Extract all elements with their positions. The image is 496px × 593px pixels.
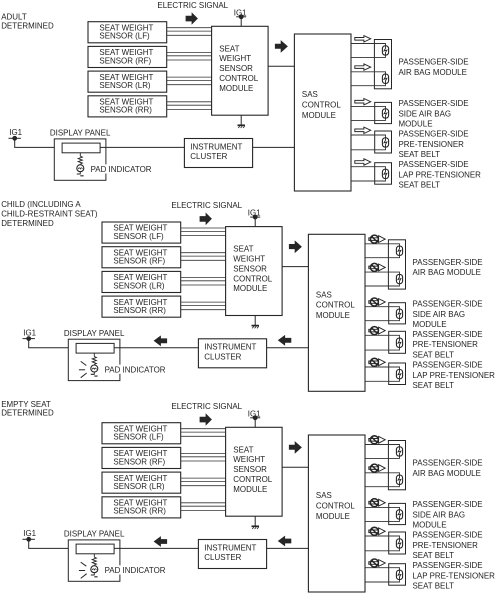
svg-text:CONTROL: CONTROL: [316, 300, 355, 310]
svg-text:PASSENGER-SIDE: PASSENGER-SIDE: [413, 299, 483, 309]
wire: SAS to lap pre-tensioner squib loop (section 2): [365, 367, 400, 381]
box: seat weight sensor (LF) (section 2): [102, 222, 181, 243]
svg-text:PASSENGER-SIDE: PASSENGER-SIDE: [399, 98, 469, 108]
svg-text:CONTROL: CONTROL: [233, 273, 272, 283]
box: seat weight sensor (RF) (section 1): [88, 46, 167, 67]
wire: SAS to pre-tensioner squib loop (section 3): [365, 536, 400, 551]
power IG1 terminal + wire to display panel (section 2): [23, 337, 77, 348]
box: instrument cluster (section 2): [198, 339, 266, 368]
box: SAS control module (section 1): [294, 34, 351, 191]
wires: sensor (LF) to control module, 3 lines (section 1): [167, 28, 212, 36]
svg-text:DISPLAY PANEL: DISPLAY PANEL: [64, 529, 125, 539]
svg-text:AIR BAG MODULE: AIR BAG MODULE: [413, 468, 482, 478]
wire: instrument cluster to SAS control module (section 3): [267, 547, 309, 549]
box: seat weight sensor (LR) (section 1): [88, 71, 167, 92]
svg-text:SIDE AIR BAG: SIDE AIR BAG: [413, 510, 466, 520]
arrow: deployment signal to air bag squib 1 (section 1): [355, 36, 371, 42]
box: seat weight sensor (LR) (section 3): [102, 472, 181, 493]
svg-text:PASSENGER-SIDE: PASSENGER-SIDE: [413, 530, 483, 540]
box: seat weight sensor (RF) (section 2): [102, 247, 181, 268]
svg-text:SEAT BELT: SEAT BELT: [413, 550, 455, 560]
squib: side air bag squib (section 3): [396, 510, 402, 519]
box: passenger-side air bag module, dual squib (section 1): [374, 40, 391, 89]
power IG1 terminal + wire to display panel (section 1): [9, 136, 63, 147]
box: lap pre-tensioner squib module (section 3): [389, 564, 406, 586]
label: passenger-side air bag module (section 3): [413, 458, 483, 478]
label: passenger-side pre-tensioner seat belt (section 2): [413, 329, 483, 360]
svg-text:SIDE AIR BAG: SIDE AIR BAG: [413, 309, 466, 319]
arrow: signal from SAS control module to instrument cluster (section 2): [278, 335, 292, 346]
wire: SAS to air bag squib 2 loop (section 2): [365, 272, 400, 286]
svg-text:WEIGHT: WEIGHT: [233, 454, 265, 464]
svg-text:ELECTRIC SIGNAL: ELECTRIC SIGNAL: [171, 401, 242, 411]
svg-text:MODULE: MODULE: [219, 83, 253, 93]
wires: sensor (RF) to control module, 3 lines (section 2): [181, 253, 226, 261]
label: PAD INDICATOR (section 2): [103, 365, 170, 375]
box: seat weight sensor control module (section 2): [226, 227, 283, 316]
svg-text:SENSOR (LR): SENSOR (LR): [113, 481, 164, 491]
wires: sensor (LR) to control module, 3 lines (section 1): [167, 77, 212, 85]
squib: pre-tensioner squib (section 1): [382, 138, 388, 147]
box: seat weight sensor (LR) (section 2): [102, 271, 181, 292]
svg-text:CONTROL: CONTROL: [316, 500, 355, 510]
svg-text:INSTRUMENT: INSTRUMENT: [204, 342, 256, 352]
svg-text:PRE-TENSIONER: PRE-TENSIONER: [399, 139, 464, 149]
svg-text:PASSENGER-SIDE: PASSENGER-SIDE: [413, 329, 483, 339]
box: seat weight sensor (LF) (section 1): [88, 22, 167, 43]
arrow: signal from control module to SAS control module (section 3): [289, 441, 302, 454]
box: display panel (section 2): [68, 339, 120, 380]
svg-text:PASSENGER-SIDE: PASSENGER-SIDE: [413, 560, 483, 570]
wires: sensor (LF) to control module, 3 lines (section 3): [181, 429, 226, 437]
box: pre-tensioner squib module (section 1): [375, 131, 392, 153]
svg-text:SENSOR (LR): SENSOR (LR): [99, 80, 150, 90]
ground: seat weight sensor control module (section 1): [238, 115, 246, 128]
svg-text:PRE-TENSIONER: PRE-TENSIONER: [413, 339, 478, 349]
label: passenger-side pre-tensioner seat belt (section 3): [413, 530, 483, 561]
svg-text:SENSOR: SENSOR: [233, 263, 267, 273]
svg-text:PASSENGER-SIDE: PASSENGER-SIDE: [413, 257, 483, 267]
arrow: signal from instrument cluster to display panel (section 2): [154, 335, 168, 346]
box: seat weight sensor (RR) (section 3): [102, 497, 181, 518]
wire: control module to SAS control module (section 1): [268, 65, 294, 67]
wires: sensor (RR) to control module, 3 lines (section 3): [181, 503, 226, 511]
box: instrument cluster (section 3): [198, 540, 266, 569]
label: passenger-side air bag module (section 1): [399, 57, 469, 77]
label: passenger-side side air bag module (section 2): [413, 299, 483, 330]
box: display panel (section 3): [68, 540, 120, 581]
arrow: deployment signal to lap pre-tensioner squib (section 2): [369, 358, 385, 366]
svg-text:CONTROL: CONTROL: [233, 474, 272, 484]
indicator lamp rays: PAD indicator illuminated (section 2): [79, 361, 87, 377]
squib: lap pre-tensioner squib (section 2): [396, 370, 402, 379]
svg-text:SEAT: SEAT: [233, 444, 253, 454]
wire: SAS to lap pre-tensioner squib loop (section 1): [351, 167, 386, 181]
box: lap pre-tensioner squib module (section 2): [389, 363, 406, 385]
wires: sensor (LR) to control module, 3 lines (section 2): [181, 277, 226, 285]
squib: lap pre-tensioner squib (section 1): [382, 169, 388, 178]
wires: sensor (LF) to control module, 3 lines (section 2): [181, 228, 226, 236]
wire: SAS to side air bag squib loop (section 3): [365, 507, 400, 521]
svg-text:INSTRUMENT: INSTRUMENT: [190, 141, 242, 151]
arrow: deployment signal to pre-tensioner squib (section 2): [369, 327, 385, 335]
svg-text:MODULE: MODULE: [413, 520, 447, 530]
wire: SAS to air bag squib 2 loop (section 1): [351, 72, 386, 86]
squib: air bag squib 1 (section 2): [396, 246, 402, 255]
svg-text:SEAT BELT: SEAT BELT: [399, 149, 441, 159]
svg-text:MODULE: MODULE: [302, 110, 336, 120]
box: side air bag squib module (section 1): [375, 102, 392, 123]
display panel indicator block (section 1): [62, 143, 100, 153]
box: seat weight sensor (RR) (section 1): [88, 96, 167, 117]
svg-text:DISPLAY PANEL: DISPLAY PANEL: [50, 128, 111, 138]
display panel indicator block (section 3): [76, 544, 114, 554]
label: passenger-side lap pre-tensioner seat belt (section 2): [413, 360, 495, 391]
wire: SAS to side air bag squib loop (section 1): [351, 106, 386, 120]
svg-text:MODULE: MODULE: [233, 484, 267, 494]
svg-text:IG1: IG1: [9, 127, 22, 137]
svg-text:DISPLAY PANEL: DISPLAY PANEL: [64, 328, 125, 338]
arrow: electric signal from sensors to control module (section 3): [200, 413, 212, 426]
wire: instrument cluster to SAS control module (section 2): [267, 347, 309, 349]
arrow: deployment signal to lap pre-tensioner squib (section 3): [369, 559, 385, 567]
svg-text:DETERMINED: DETERMINED: [1, 218, 54, 228]
wires: sensor (LR) to control module, 3 lines (section 3): [181, 478, 226, 486]
label: passenger-side lap pre-tensioner seat belt (section 1): [399, 159, 481, 190]
indicator lamp rays: PAD indicator illuminated (section 3): [79, 562, 87, 578]
svg-text:INSTRUMENT: INSTRUMENT: [204, 542, 256, 552]
box: SAS control module (section 2): [308, 234, 365, 391]
svg-text:SENSOR (LF): SENSOR (LF): [113, 231, 163, 241]
indicator lamp: PAD indicator bulb with resistor coil (section 2): [91, 353, 98, 376]
squib: air bag squib 2 (section 2): [396, 274, 402, 283]
arrow: electric signal from sensors to control module (section 1): [186, 12, 198, 25]
wire: SAS to pre-tensioner squib loop (section 1): [351, 135, 386, 150]
wire: display panel to instrument cluster (section 1): [100, 146, 184, 148]
arrow: deployment signal to air bag squib 1 (section 2): [369, 235, 385, 243]
arrow: deployment signal to air bag squib 2 (section 1): [355, 64, 371, 70]
svg-text:SENSOR (RF): SENSOR (RF): [99, 55, 151, 65]
power IG1 terminal + wire to display panel (section 3): [23, 537, 77, 548]
svg-text:CONTROL: CONTROL: [302, 99, 341, 109]
box: lap pre-tensioner squib module (section 1): [375, 163, 392, 185]
svg-text:CHILD (INCLUDING A: CHILD (INCLUDING A: [1, 199, 81, 209]
power IG1 terminal + wire into control module (section 3): [250, 416, 260, 427]
squib: air bag squib 2 (section 1): [382, 74, 388, 83]
svg-text:ELECTRIC SIGNAL: ELECTRIC SIGNAL: [157, 0, 228, 10]
svg-text:CONTROL: CONTROL: [219, 73, 258, 83]
svg-text:MODULE: MODULE: [399, 119, 433, 129]
svg-text:CHILD-RESTRAINT SEAT): CHILD-RESTRAINT SEAT): [1, 208, 98, 218]
box: display panel (section 1): [54, 139, 106, 180]
arrow: signal from SAS control module to instrument cluster (section 3): [278, 536, 292, 547]
svg-text:CLUSTER: CLUSTER: [204, 552, 241, 562]
svg-text:SENSOR (RF): SENSOR (RF): [113, 256, 165, 266]
svg-text:MODULE: MODULE: [413, 319, 447, 329]
label: passenger-side lap pre-tensioner seat belt (section 3): [413, 560, 495, 591]
svg-text:DETERMINED: DETERMINED: [1, 20, 54, 30]
svg-text:AIR BAG MODULE: AIR BAG MODULE: [399, 67, 468, 77]
indicator lamp: PAD indicator bulb with resistor coil (section 1): [77, 153, 84, 176]
squib: air bag squib 2 (section 3): [396, 475, 402, 484]
svg-text:SEAT BELT: SEAT BELT: [399, 180, 441, 190]
indicator lamp: PAD indicator bulb with resistor coil (section 3): [91, 554, 98, 577]
box: passenger-side air bag module, dual squib (section 3): [388, 441, 405, 490]
svg-text:SENSOR (RR): SENSOR (RR): [113, 305, 166, 315]
arrow: signal from instrument cluster to display panel (section 3): [154, 536, 168, 547]
svg-text:PASSENGER-SIDE: PASSENGER-SIDE: [399, 159, 469, 169]
svg-text:PASSENGER-SIDE: PASSENGER-SIDE: [413, 458, 483, 468]
svg-text:SENSOR (RR): SENSOR (RR): [99, 105, 152, 115]
label: passenger-side side air bag module (section 3): [413, 499, 483, 530]
label: passenger-side side air bag module (section 1): [399, 98, 469, 129]
svg-text:SEAT BELT: SEAT BELT: [413, 581, 455, 591]
svg-text:MODULE: MODULE: [316, 310, 350, 320]
box: seat weight sensor control module (section 3): [226, 427, 283, 516]
power IG1 terminal + wire into control module (section 1): [236, 15, 246, 26]
squib: pre-tensioner squib (section 2): [396, 338, 402, 347]
svg-text:DETERMINED: DETERMINED: [1, 408, 54, 418]
svg-text:SENSOR (LR): SENSOR (LR): [113, 280, 164, 290]
arrow: deployment signal to pre-tensioner squib (section 1): [355, 127, 371, 133]
svg-text:PAD INDICATOR: PAD INDICATOR: [105, 365, 166, 375]
section 3 heading: EMPTY SEAT DETERMINED: [1, 399, 54, 418]
box: SAS control module (section 3): [308, 435, 365, 592]
svg-text:SENSOR: SENSOR: [219, 63, 253, 73]
svg-text:LAP PRE-TENSIONER: LAP PRE-TENSIONER: [399, 169, 481, 179]
squib: air bag squib 1 (section 1): [382, 46, 388, 55]
wire: SAS to air bag squib 1 loop (section 2): [365, 244, 400, 258]
box: seat weight sensor control module (section 1): [212, 26, 269, 115]
box: pre-tensioner squib module (section 2): [389, 331, 406, 353]
box: side air bag squib module (section 3): [389, 503, 406, 524]
arrow: deployment signal to air bag squib 2 (section 3): [369, 464, 385, 472]
svg-text:PRE-TENSIONER: PRE-TENSIONER: [413, 540, 478, 550]
box: instrument cluster (section 1): [184, 139, 252, 168]
box: seat weight sensor (LF) (section 3): [102, 423, 181, 444]
arrow: electric signal from sensors to control module (section 2): [200, 213, 212, 226]
wires: sensor (RR) to control module, 3 lines (section 1): [167, 102, 212, 110]
box: side air bag squib module (section 2): [389, 303, 406, 324]
arrow: deployment signal to side air bag squib (section 3): [369, 499, 385, 507]
wire: SAS to lap pre-tensioner squib loop (section 3): [365, 568, 400, 582]
svg-text:LAP PRE-TENSIONER: LAP PRE-TENSIONER: [413, 370, 495, 380]
svg-text:CLUSTER: CLUSTER: [190, 151, 227, 161]
wire: instrument cluster to SAS control module (section 1): [253, 146, 295, 148]
svg-text:SEAT: SEAT: [233, 244, 253, 254]
wires: sensor (RF) to control module, 3 lines (section 1): [167, 52, 212, 60]
section 1 heading: ADULT DETERMINED: [1, 12, 54, 31]
svg-text:MODULE: MODULE: [233, 283, 267, 293]
svg-text:PASSENGER-SIDE: PASSENGER-SIDE: [399, 129, 469, 139]
svg-text:IG1: IG1: [23, 528, 36, 538]
wire: display panel to instrument cluster (section 3): [114, 547, 198, 549]
arrow: deployment signal to air bag squib 1 (section 3): [369, 436, 385, 444]
wire: SAS to air bag squib 1 loop (section 3): [365, 445, 400, 459]
section 2 heading: CHILD (INCLUDING A CHILD-RESTRAINT SEAT) DETERMINED: [1, 199, 98, 228]
display panel indicator block (section 2): [76, 343, 114, 353]
wire: SAS to side air bag squib loop (section 2): [365, 307, 400, 321]
power IG1 terminal + wire into control module (section 2): [250, 215, 260, 226]
wire: SAS to air bag squib 1 loop (section 1): [351, 44, 386, 58]
arrow: deployment signal to side air bag squib (section 2): [369, 298, 385, 306]
arrow: signal from control module to SAS control module (section 2): [289, 240, 302, 253]
arrow: signal from control module to SAS control module (section 1): [275, 40, 288, 53]
squib: air bag squib 1 (section 3): [396, 447, 402, 456]
arrow: deployment signal to lap pre-tensioner squib (section 1): [355, 159, 371, 165]
svg-text:SENSOR (LF): SENSOR (LF): [113, 432, 163, 442]
box: seat weight sensor (RR) (section 2): [102, 296, 181, 317]
label: PAD INDICATOR (section 3): [103, 565, 170, 575]
svg-text:AIR BAG MODULE: AIR BAG MODULE: [413, 267, 482, 277]
svg-text:WEIGHT: WEIGHT: [233, 254, 265, 264]
svg-text:WEIGHT: WEIGHT: [219, 53, 251, 63]
svg-text:CLUSTER: CLUSTER: [204, 352, 241, 362]
label: passenger-side air bag module (section 2): [413, 257, 483, 277]
arrow: deployment signal to side air bag squib (section 1): [355, 99, 371, 105]
squib: side air bag squib (section 1): [382, 109, 388, 118]
ground: seat weight sensor control module (section 3): [252, 516, 260, 529]
box: pre-tensioner squib module (section 3): [389, 532, 406, 554]
svg-text:SENSOR (LF): SENSOR (LF): [99, 31, 149, 41]
svg-text:SEAT BELT: SEAT BELT: [413, 380, 455, 390]
wire: SAS to pre-tensioner squib loop (section 2): [365, 335, 400, 350]
wires: sensor (RF) to control module, 3 lines (section 3): [181, 453, 226, 461]
svg-text:PAD INDICATOR: PAD INDICATOR: [105, 565, 166, 575]
wire: control module to SAS control module (section 3): [282, 466, 308, 468]
svg-text:ELECTRIC SIGNAL: ELECTRIC SIGNAL: [171, 200, 242, 210]
label: PAD INDICATOR (section 1): [89, 164, 156, 174]
wires: sensor (RR) to control module, 3 lines (section 2): [181, 302, 226, 310]
squib: pre-tensioner squib (section 3): [396, 539, 402, 548]
label: passenger-side pre-tensioner seat belt (section 1): [399, 129, 469, 160]
svg-text:SAS: SAS: [316, 289, 332, 299]
svg-text:IG1: IG1: [23, 328, 36, 338]
svg-text:PASSENGER-SIDE: PASSENGER-SIDE: [399, 57, 469, 67]
svg-text:SIDE AIR BAG: SIDE AIR BAG: [399, 109, 452, 119]
wire: SAS to air bag squib 2 loop (section 3): [365, 473, 400, 487]
svg-text:MODULE: MODULE: [316, 511, 350, 521]
squib: side air bag squib (section 2): [396, 309, 402, 318]
wire: display panel to instrument cluster (section 2): [114, 347, 198, 349]
svg-text:LAP PRE-TENSIONER: LAP PRE-TENSIONER: [413, 571, 495, 581]
svg-text:PASSENGER-SIDE: PASSENGER-SIDE: [413, 499, 483, 509]
wire: control module to SAS control module (section 2): [282, 266, 308, 268]
ground: seat weight sensor control module (section 2): [252, 316, 260, 329]
arrow: deployment signal to pre-tensioner squib (section 3): [369, 527, 385, 535]
svg-text:SEAT: SEAT: [219, 43, 239, 53]
svg-text:SAS: SAS: [302, 89, 318, 99]
svg-text:SENSOR: SENSOR: [233, 464, 267, 474]
svg-text:PASSENGER-SIDE: PASSENGER-SIDE: [413, 360, 483, 370]
svg-text:PAD INDICATOR: PAD INDICATOR: [91, 164, 152, 174]
arrow: deployment signal to air bag squib 2 (section 2): [369, 263, 385, 271]
squib: lap pre-tensioner squib (section 3): [396, 570, 402, 579]
svg-text:SENSOR (RF): SENSOR (RF): [113, 456, 165, 466]
svg-text:SAS: SAS: [316, 490, 332, 500]
box: seat weight sensor (RF) (section 3): [102, 447, 181, 468]
svg-text:SENSOR (RR): SENSOR (RR): [113, 506, 166, 516]
box: passenger-side air bag module, dual squib (section 2): [388, 240, 405, 289]
svg-text:SEAT BELT: SEAT BELT: [413, 350, 455, 360]
